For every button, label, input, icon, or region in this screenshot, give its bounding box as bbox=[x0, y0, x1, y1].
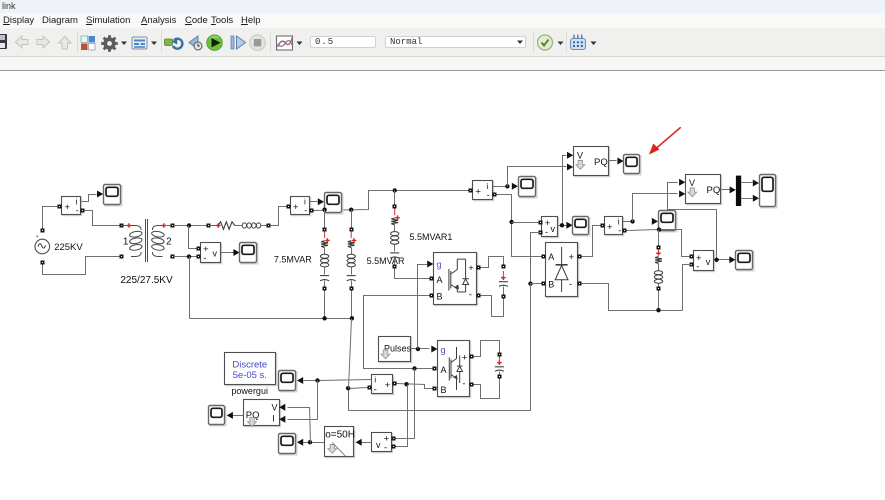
toolbar: simulation data inspector icon bbox=[277, 36, 293, 50]
junction RL top bbox=[657, 227, 661, 231]
junction RL on DC bus bbox=[656, 308, 660, 312]
wire: demux out 1 to Scope9 bbox=[742, 182, 753, 184]
VM2 plus port bbox=[539, 221, 543, 225]
shunt branch 5.5MVAR red polarity mark bbox=[350, 231, 352, 238]
voltage measurement VM1 bbox=[202, 244, 222, 264]
arrowhead into Scope12 bbox=[297, 439, 303, 446]
wire: IGBT2 plus to cap2 top bbox=[474, 341, 500, 357]
node junction at 189,225.5 bbox=[187, 223, 191, 227]
Scope8 bbox=[737, 252, 754, 271]
current measurement CM3 bbox=[474, 182, 494, 201]
wire: VM3 out up to PQ2 V input bbox=[668, 183, 717, 260]
svg-text:225/27.5KV: 225/27.5KV bbox=[120, 275, 173, 286]
wire: RL bottom to DC bus bbox=[658, 291, 660, 311]
svg-text:B: B bbox=[437, 292, 443, 302]
arrowhead into Scope1 bbox=[97, 191, 103, 198]
toolbar: stop button bbox=[250, 35, 266, 51]
toolbar: update model icon bbox=[165, 39, 183, 49]
wire: VM4 minus up to B2 node bbox=[396, 385, 408, 447]
PQ3 icon arrow bbox=[248, 418, 257, 427]
junction CM3 signal bbox=[505, 184, 509, 188]
svg-text:A: A bbox=[437, 275, 443, 285]
cap1 red polarity bbox=[502, 271, 504, 275]
shunt branch 5.5MVAR bottom port bbox=[350, 287, 354, 291]
svg-text:A: A bbox=[548, 252, 554, 262]
Scope2 bbox=[241, 244, 258, 264]
IGBT1 plus port bbox=[477, 266, 481, 270]
toolbar: model settings table icon bbox=[132, 37, 147, 49]
wire: junction down to RL branch bbox=[658, 230, 660, 246]
arrowhead into Scope7 bbox=[652, 218, 658, 225]
svg-text:-: - bbox=[569, 279, 572, 290]
voltage measurement VM4 mirrored bbox=[373, 434, 393, 453]
junction bridge B node bbox=[528, 282, 532, 286]
svg-text:2: 2 bbox=[166, 237, 172, 248]
shunt branch 7.5MVAR resistor bbox=[321, 241, 328, 248]
wire: VM2 out to Scope6 bbox=[558, 225, 567, 227]
arrowhead into Scope6 bbox=[566, 222, 572, 229]
shunt branch 7.5MVAR capacitor bbox=[320, 275, 329, 277]
junction pulses bbox=[416, 347, 420, 351]
wire: branch3 bottom to IGBT1 A bbox=[395, 269, 430, 279]
Pulses block bbox=[380, 338, 412, 363]
wire: VM2 out up to PQ1 V input bbox=[563, 156, 567, 226]
wire: CM4 i out to Scope7 and PQ2 input2 bbox=[623, 221, 633, 223]
wire: CM3 minus down to bridge A with VM2 tap bbox=[497, 195, 542, 257]
series RLC red polarity bbox=[211, 225, 218, 227]
CM5 plus port bbox=[393, 382, 397, 386]
wire down to branch2 bbox=[351, 210, 353, 228]
wire: PQ3 out to Scope11 bbox=[231, 415, 244, 417]
shunt branch 5.5MVAR1 capacitor bbox=[390, 252, 399, 254]
wire: CM1 minus to transformer winding 1 top bbox=[85, 211, 120, 226]
wire: PQ1 output to Scope5 bbox=[609, 160, 617, 162]
svg-text:+: + bbox=[385, 380, 391, 391]
wire: CM2 minus bus with shunt branches bbox=[314, 191, 469, 211]
CM3 minus port bbox=[493, 193, 497, 197]
cap1 bottom port bbox=[502, 295, 506, 299]
transformer winding 1 top port bbox=[120, 224, 124, 228]
toolbar: run button bbox=[207, 35, 223, 51]
svg-text:-: - bbox=[203, 253, 206, 264]
wire: demux out 2 to Scope9 bbox=[742, 198, 753, 200]
shunt branch 5.5MVAR inductor bbox=[347, 254, 355, 258]
wire: series RLC to CM2 bbox=[271, 207, 287, 226]
svg-text:1: 1 bbox=[123, 237, 129, 248]
junction VM2 plus tap bbox=[509, 220, 513, 224]
svg-text:5.5MVAR1: 5.5MVAR1 bbox=[410, 232, 453, 242]
RL branch resistor bbox=[655, 257, 662, 264]
svg-text:+: + bbox=[293, 202, 299, 213]
wire: AC source bottom to transformer winding 1 bottom bbox=[43, 257, 120, 275]
window title bar bbox=[0, 0, 885, 13]
cap2 bottom port bbox=[498, 375, 502, 379]
AC source bottom port bbox=[41, 261, 45, 265]
cap1 plates bbox=[499, 281, 508, 283]
IGBT1 symbol bbox=[449, 259, 469, 292]
PQ measurement PQ2 bbox=[687, 176, 722, 205]
bridge B port bbox=[542, 282, 546, 286]
toolbar: validate icon bbox=[538, 35, 553, 50]
toolbar: forward arrow bbox=[37, 36, 50, 48]
svg-text:V: V bbox=[577, 151, 583, 161]
svg-text:+: + bbox=[569, 252, 575, 263]
shunt branch 5.5MVAR1 top port bbox=[393, 205, 397, 209]
transformer winding 1 coil bbox=[131, 226, 141, 231]
filter block Fo=50Hz bbox=[326, 428, 355, 458]
PQ3 input arrowheads bbox=[279, 404, 285, 411]
PQ2 input icon arrow bbox=[688, 188, 697, 197]
svg-text:-: - bbox=[487, 190, 490, 200]
arrowhead into Scope10 (right side) bbox=[297, 377, 303, 384]
VM2 minus port bbox=[539, 231, 543, 235]
IGBT2 B port bbox=[433, 387, 437, 391]
shunt branch 5.5MVAR1 wire bbox=[394, 258, 396, 265]
toolbar bbox=[0, 28, 885, 57]
wire down to branch3 bbox=[394, 191, 396, 205]
svg-text:5e-05 s.: 5e-05 s. bbox=[233, 370, 267, 381]
IGBT2 g input arrowhead bbox=[431, 346, 437, 353]
svg-text:-: - bbox=[618, 226, 621, 236]
Scope4 bbox=[520, 178, 537, 198]
PQ measurement PQ3 mirrored bbox=[245, 401, 281, 427]
CM2 left port bbox=[287, 205, 291, 209]
svg-text:PQ: PQ bbox=[594, 157, 608, 168]
Scope6 bbox=[574, 218, 590, 236]
toolbar: up arrow bbox=[59, 37, 71, 50]
wire: CM4 minus to RL branch and VM3 bbox=[627, 230, 690, 257]
canvas top border bbox=[0, 70, 885, 72]
wire: VM1 output to Scope2 bbox=[221, 252, 234, 254]
shunt branch 7.5MVAR wire bbox=[324, 281, 326, 287]
RL branch top port bbox=[657, 246, 661, 250]
IGBT1 minus port bbox=[477, 294, 481, 298]
bridge minus port bbox=[578, 282, 582, 286]
PQ2 input arrowheads bbox=[679, 179, 685, 186]
svg-text:-: - bbox=[469, 290, 472, 301]
RL branch wire to bottom port bbox=[658, 284, 660, 287]
svg-text:v: v bbox=[551, 224, 556, 234]
shunt branch 5.5MVAR capacitor bbox=[347, 275, 356, 277]
CM3 left port bbox=[469, 189, 473, 193]
voltage measurement VM3 bbox=[695, 252, 715, 272]
shunt branch 5.5MVAR1 bottom port bbox=[393, 265, 397, 269]
IGBT2 symbol bbox=[449, 347, 462, 390]
wire junction up to PQ1 input2 bbox=[508, 167, 567, 187]
VM3 minus port bbox=[690, 263, 694, 267]
node junction at 189,256.6 bbox=[187, 254, 191, 258]
svg-text:-: - bbox=[696, 261, 699, 272]
wire branch2 to bus bbox=[351, 291, 353, 319]
wire branch1 to bus bbox=[324, 291, 326, 319]
shunt branch 7.5MVAR red polarity mark bbox=[324, 231, 326, 238]
Scope7 bbox=[660, 212, 677, 232]
wire: bridge minus to DC bus y310 bbox=[582, 284, 683, 311]
wire down to branch1 bbox=[324, 210, 326, 228]
wire: bridge B node down and around to CM5 minus node bbox=[349, 284, 531, 411]
shunt branch 5.5MVAR1 wire bbox=[394, 225, 396, 232]
cap2 wire bbox=[499, 372, 501, 375]
wire: junction to bridge B bbox=[531, 283, 542, 285]
wire: VM3 minus to DC bus bbox=[683, 265, 692, 311]
capacitor cap1 top port bbox=[502, 265, 506, 269]
svg-text:o=50H: o=50H bbox=[325, 430, 355, 441]
CM5 minus port bbox=[368, 386, 372, 390]
arrowhead into demux bbox=[730, 186, 736, 193]
svg-text:+: + bbox=[468, 263, 474, 274]
junction CM4 out bbox=[630, 219, 634, 223]
svg-text:7.5MVAR: 7.5MVAR bbox=[274, 254, 312, 264]
demux black bar bbox=[736, 176, 741, 206]
wire: junction up to PQ2 input2 bbox=[633, 194, 678, 222]
junction CM5 minus node bbox=[346, 386, 350, 390]
diode bridge block bbox=[547, 244, 579, 298]
wire: Pulses out to IGBT2 g and IGBT1 g bbox=[411, 348, 430, 350]
IGBT/Diode converter block 2 bbox=[439, 342, 471, 398]
svg-text:V: V bbox=[272, 402, 278, 412]
Scope1 bbox=[105, 186, 122, 206]
svg-text:-: - bbox=[374, 385, 377, 395]
PQ1 input arrowheads bbox=[567, 152, 573, 159]
arrowhead into Scope2 bbox=[233, 249, 239, 256]
shunt branch 5.5MVAR wire bbox=[351, 281, 353, 287]
voltage measurement VM2 bbox=[543, 218, 559, 238]
series RLC end port bbox=[267, 224, 271, 228]
shunt branch 7.5MVAR bottom port bbox=[323, 287, 327, 291]
svg-text:I: I bbox=[272, 414, 275, 424]
wire: IGBT2 minus to cap2 bottom bbox=[474, 379, 500, 399]
svg-text:+: + bbox=[462, 353, 468, 364]
shunt branch 7.5MVAR wire bbox=[324, 268, 326, 275]
svg-text:-: - bbox=[545, 227, 548, 238]
svg-text:-: - bbox=[462, 379, 465, 390]
wire: IGBT1 plus to cap1 top bbox=[481, 257, 504, 268]
IGBT2 minus port bbox=[470, 383, 474, 387]
junction VM3 out bbox=[714, 258, 718, 262]
Pulses icon arrow bbox=[381, 350, 390, 359]
series RLC inductor bbox=[242, 223, 246, 228]
series RLC wire bbox=[235, 225, 243, 227]
RL branch inductor bbox=[654, 271, 662, 275]
svg-text:v: v bbox=[706, 257, 711, 267]
Scope12 mirrored bbox=[280, 435, 297, 455]
wire: IGBT1 B to IGBT2 A (down left side) bbox=[364, 296, 433, 369]
shunt branch 5.5MVAR resistor bbox=[348, 241, 355, 248]
junction at branch1 top bbox=[322, 208, 326, 212]
CM1 left port bbox=[58, 205, 62, 209]
current measurement CM5 mirrored bbox=[373, 376, 394, 395]
series RLC resistor bbox=[218, 222, 235, 230]
IGBT1 B port bbox=[430, 294, 434, 298]
arrowhead into Scope4 bbox=[512, 183, 518, 190]
wire: junction up to PQ3 V input bbox=[288, 408, 311, 443]
toolbar: step forward icon bbox=[231, 36, 246, 49]
shunt branch 5.5MVAR1 wire bbox=[394, 245, 396, 252]
svg-text:powergui: powergui bbox=[231, 386, 268, 396]
current measurement CM1 bbox=[63, 198, 82, 216]
wire: junction down to VM1 plus bbox=[189, 226, 197, 249]
svg-text:-: - bbox=[304, 206, 307, 216]
junction A2 wire bbox=[412, 366, 416, 370]
CM1 minus port bbox=[81, 209, 85, 213]
RL branch wire bbox=[658, 264, 660, 271]
CM2 minus port bbox=[310, 209, 314, 213]
AC bottom bus bbox=[190, 318, 352, 320]
VM3 plus port bbox=[690, 255, 694, 259]
wire: junction down to AC bus bbox=[189, 257, 191, 319]
VM4 plus port bbox=[392, 437, 396, 441]
wire: CM5 plus to IGBT2 B bbox=[397, 384, 433, 389]
VM1 minus port bbox=[197, 255, 201, 259]
svg-text:B: B bbox=[441, 385, 447, 395]
wire: AC source top to CM1 bbox=[43, 207, 58, 229]
transformer core bbox=[145, 219, 147, 262]
transformer winding 2 bottom port bbox=[171, 255, 175, 259]
wire: junction up to IGBT1 g bbox=[418, 265, 428, 349]
wire: CM2 i output to Scope3 bbox=[310, 201, 318, 203]
CM4 left port bbox=[601, 224, 605, 228]
RL branch bottom port bbox=[657, 287, 661, 291]
Scope11 mirrored bbox=[210, 407, 226, 426]
transformer winding 2 top port bbox=[171, 224, 175, 228]
svg-text:+: + bbox=[607, 222, 613, 233]
junction at branch3 top bbox=[393, 188, 397, 192]
current measurement CM2 bbox=[292, 198, 311, 216]
shunt branch 5.5MVAR wire bbox=[351, 248, 353, 255]
cap1 wire bbox=[503, 287, 505, 295]
wire: junction down to PQ3 I input bbox=[288, 381, 318, 420]
junction at branch2 top bbox=[349, 208, 353, 212]
bridge diode symbol bbox=[555, 247, 568, 292]
wire: bridge plus up to CM4 bbox=[582, 226, 601, 257]
wire: node up to AC bus (slight diagonal) bbox=[349, 319, 352, 389]
wire: CM3 i out to Scope4 and PQ1 bbox=[493, 186, 508, 188]
svg-text:V: V bbox=[689, 178, 695, 188]
red annotation arrow bbox=[649, 127, 681, 154]
arrowhead into Scope3 bbox=[318, 198, 324, 205]
transformer winding 2 red polarity + bbox=[167, 225, 171, 227]
wire: VM2 minus to bridge B node bbox=[531, 233, 541, 284]
junction B2 wire bbox=[404, 382, 408, 386]
wire: winding2 top to series RLC with VM1 branch bbox=[174, 225, 207, 227]
svg-text:225KV: 225KV bbox=[54, 242, 83, 253]
shunt branch 5.5MVAR wire bbox=[351, 268, 353, 275]
cap2 top port bbox=[498, 353, 502, 357]
Scope5 bbox=[625, 156, 641, 175]
shunt branch 7.5MVAR wire bbox=[324, 248, 326, 255]
arrowhead into Scope11 bbox=[227, 412, 233, 419]
Scope10 mirrored bbox=[280, 372, 297, 392]
svg-text:-: - bbox=[384, 443, 387, 454]
PQ measurement PQ1 bbox=[575, 148, 610, 177]
wire: filter out to Scope12 and PQ3 V bbox=[304, 442, 325, 444]
wire: VM4 plus up to A2 node bbox=[396, 369, 415, 439]
Scope9 double input bbox=[761, 176, 777, 208]
menu bar bbox=[0, 13, 885, 28]
svg-text:v: v bbox=[213, 249, 218, 259]
wire: winding2 bottom to VM1 minus bbox=[174, 256, 197, 258]
RL branch red polarity bbox=[658, 249, 660, 255]
current measurement CM4 bbox=[606, 218, 624, 236]
arrowhead into Scope5 bbox=[617, 158, 623, 165]
IGBT1 g input arrowhead bbox=[427, 261, 433, 268]
bridge plus port bbox=[578, 255, 582, 259]
svg-text:5.5MVAR: 5.5MVAR bbox=[367, 256, 405, 266]
arrowhead into Scope8 bbox=[729, 256, 735, 263]
wire junction to VM2 plus bbox=[512, 222, 539, 224]
PQ1 input icon arrow bbox=[576, 161, 585, 170]
junction i signal bbox=[315, 378, 319, 382]
Scope3 bbox=[326, 194, 343, 214]
toolbar: library browser icon bbox=[81, 36, 95, 50]
shunt branch 5.5MVAR1 inductor bbox=[391, 232, 399, 236]
AC source top port bbox=[41, 229, 45, 233]
filter block icon bbox=[328, 445, 337, 454]
shunt branch 5.5MVAR1 resistor bbox=[391, 218, 398, 225]
CM4 minus port bbox=[623, 229, 627, 233]
wire: VM4 out to filter block bbox=[358, 442, 372, 444]
AC voltage source 225KV bbox=[35, 236, 50, 254]
series RLC wire to end port bbox=[261, 225, 267, 227]
IGBT2 plus port bbox=[470, 355, 474, 359]
svg-text:+: + bbox=[65, 202, 71, 213]
svg-text:-: - bbox=[76, 206, 79, 216]
shunt branch 7.5MVAR top port bbox=[323, 228, 327, 232]
toolbar: save icon (clipped) bbox=[0, 34, 7, 49]
toolbar: back arrow bbox=[16, 36, 29, 48]
wire: CM5 minus left to node bbox=[349, 388, 368, 389]
toolbar: settings gear bbox=[101, 35, 118, 52]
series RLC branch port bbox=[207, 224, 211, 228]
toolbar: target hardware icon bbox=[571, 35, 586, 50]
VM4 minus port bbox=[392, 445, 396, 449]
cap2 plates bbox=[495, 366, 504, 368]
svg-text:v: v bbox=[376, 440, 381, 450]
wire: VM3 out to Scope8 bbox=[714, 259, 730, 261]
transformer winding 1 red polarity + bbox=[123, 225, 127, 227]
svg-text:PQ: PQ bbox=[707, 185, 721, 196]
IGBT1 A port bbox=[430, 277, 434, 281]
cap2 red polarity bbox=[498, 357, 500, 361]
powergui block bbox=[226, 354, 277, 386]
shunt branch 5.5MVAR top port bbox=[350, 228, 354, 232]
IGBT/Diode converter block 1 bbox=[435, 254, 478, 306]
filter block diagonal bbox=[332, 443, 345, 457]
junction filter out bbox=[308, 440, 312, 444]
arrowhead into filter block bbox=[356, 439, 362, 446]
svg-text:g: g bbox=[441, 345, 446, 355]
wire: CM1 i output to Scope1 bbox=[81, 195, 97, 202]
junction VM2 out bbox=[560, 223, 564, 227]
wire: IGBT1 minus to cap1 bottom bbox=[481, 296, 504, 317]
svg-text:g: g bbox=[437, 260, 442, 270]
svg-text:+: + bbox=[475, 187, 481, 198]
wire: CM5 i out to Scope10 and PQ3 I bbox=[304, 380, 372, 381]
wire: PQ2 out to demux bbox=[721, 189, 730, 191]
svg-text:Discrete: Discrete bbox=[232, 359, 267, 370]
shunt branch 5.5MVAR1 red polarity mark bbox=[394, 208, 396, 215]
toolbar: step back icon bbox=[189, 36, 202, 50]
transformer winding 1 bottom port bbox=[120, 255, 124, 259]
svg-text:A: A bbox=[441, 365, 447, 375]
bridge A port bbox=[542, 255, 546, 259]
shunt branch 7.5MVAR inductor bbox=[320, 254, 328, 258]
IGBT2 A port bbox=[433, 367, 437, 371]
junction branch1 bus bbox=[322, 316, 326, 320]
junction branch2 bus bbox=[350, 316, 354, 320]
svg-text:i: i bbox=[374, 374, 376, 384]
svg-text:B: B bbox=[548, 279, 554, 289]
